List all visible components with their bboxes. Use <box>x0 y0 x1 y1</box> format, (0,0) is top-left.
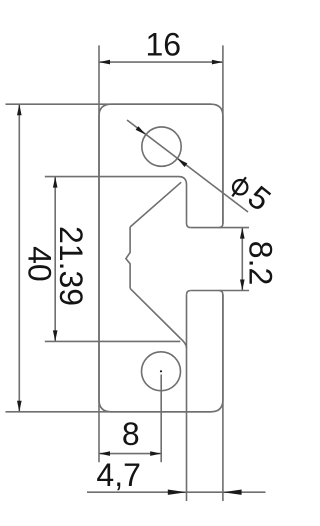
right edge extension upper <box>222 45 224 223</box>
dimension 16 arrow right <box>212 60 223 65</box>
diameter 5 arrow lower <box>177 159 187 168</box>
wedge top edge <box>45 176 179 178</box>
wedge top slant <box>130 182 181 227</box>
tongue lower vertical extension <box>186 295 188 501</box>
svg-text:21.39: 21.39 <box>53 226 89 306</box>
wedge bottom edge <box>45 340 181 342</box>
dimension 16 line <box>99 61 223 63</box>
left edge extension line <box>98 45 100 462</box>
dimension 8.2 arrow bottom <box>240 280 245 291</box>
tongue upper step <box>179 177 191 228</box>
groove bottom edge extension <box>191 290 249 292</box>
dimension 40 arrow top <box>17 104 22 115</box>
groove top edge extension <box>191 227 249 229</box>
part outline <box>99 104 223 412</box>
svg-text:4,7: 4,7 <box>96 457 140 493</box>
diameter 5 leader line <box>127 120 248 212</box>
dimension 8.2 line <box>241 228 243 291</box>
svg-text:8.2: 8.2 <box>243 241 279 285</box>
diameter 5 arrow upper <box>136 126 146 135</box>
wedge bottom slant <box>130 288 186 348</box>
dimension 4,7 line <box>87 491 266 493</box>
hole bottom <box>142 352 181 391</box>
dimension 16 arrow left <box>99 60 110 65</box>
dimension 21.39 line <box>54 177 56 342</box>
hole bottom center extension <box>160 375 162 463</box>
dimension 40 line <box>18 104 20 412</box>
dimension 8.2 arrow top <box>240 228 245 239</box>
dimension 8 line <box>99 453 161 455</box>
dimension 21.39 arrow bottom <box>53 330 58 341</box>
dimension 21.39 arrow top <box>53 177 58 188</box>
diameter 5 symbol slash <box>232 177 246 196</box>
dimension 8 arrow left <box>99 451 110 456</box>
wedge left edge with chevron notch <box>126 227 130 288</box>
dimension 4,7 arrow right <box>223 490 242 495</box>
hole top <box>142 127 181 166</box>
svg-text:16: 16 <box>146 27 182 63</box>
tongue lower step <box>187 291 191 295</box>
svg-text:40: 40 <box>22 246 58 282</box>
bottom edge extension <box>6 411 212 413</box>
dimension 40 arrow bottom <box>17 401 22 412</box>
dimension 4,7 arrow left <box>168 490 187 495</box>
diameter 5 symbol circle <box>233 180 247 194</box>
right edge extension lower <box>222 295 224 502</box>
svg-text:8: 8 <box>122 416 140 452</box>
top edge extension <box>6 103 212 105</box>
hole bottom center dot <box>160 370 162 372</box>
dimension 8 arrow right <box>150 451 161 456</box>
